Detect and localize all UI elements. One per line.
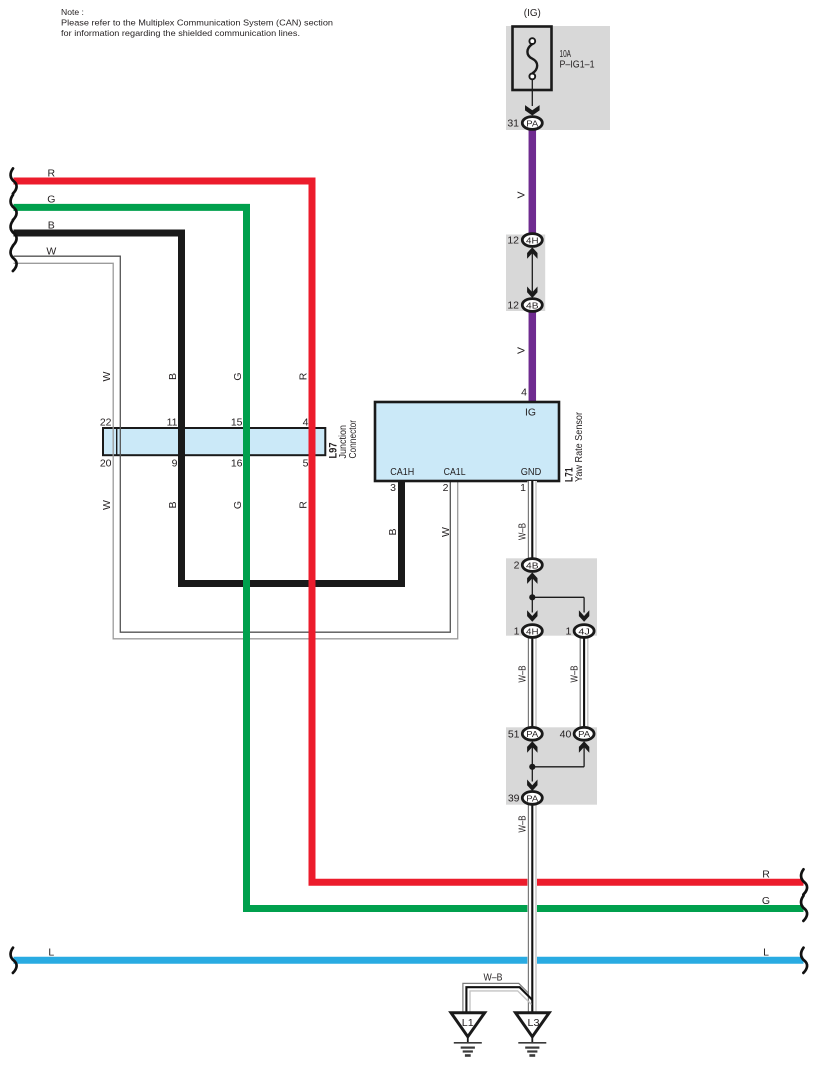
continuation symbol wire R left <box>11 168 17 193</box>
W-B wire 4J to 40PA <box>579 637 589 728</box>
svg-text:PA: PA <box>526 729 538 739</box>
svg-text:4H: 4H <box>526 235 539 245</box>
svg-text:G: G <box>47 194 55 206</box>
arrow up into 51 PA <box>527 741 537 753</box>
wire B (black) <box>14 233 402 584</box>
svg-text:IG: IG <box>525 407 536 419</box>
svg-text:L1: L1 <box>462 1018 474 1029</box>
svg-text:4J: 4J <box>578 626 590 636</box>
svg-text:W: W <box>46 245 56 257</box>
svg-text:39: 39 <box>508 793 520 805</box>
wire G (green) <box>14 207 804 908</box>
shaded relay block background (fuse area) <box>506 26 610 130</box>
connector oval 51 PA <box>522 727 542 740</box>
connector oval 12 4B <box>522 299 542 312</box>
svg-text:9: 9 <box>172 458 178 470</box>
svg-text:2: 2 <box>514 560 520 572</box>
junction dot <box>529 594 535 600</box>
W-B branch wye to ground L1 <box>463 983 532 1012</box>
continuation symbol wire W left <box>11 246 17 271</box>
continuation symbol wire G right <box>801 896 807 921</box>
continuation symbol wire G left <box>11 195 17 220</box>
arrow up into 4B <box>527 572 537 584</box>
W-B wire sensor GND pin1 to 4B <box>527 481 537 559</box>
wire fuse to 31 PA <box>531 79 533 106</box>
continuation squiggles right edge <box>801 869 807 973</box>
connector oval 1 4J <box>574 625 594 638</box>
arrow up into 4H <box>527 247 537 258</box>
wire 4B to 4H <box>531 578 533 613</box>
svg-text:W–B: W–B <box>484 971 503 983</box>
svg-text:20: 20 <box>100 458 112 470</box>
wire 51PA to 39PA <box>531 747 533 782</box>
arrow up into 40 PA <box>579 741 589 753</box>
wire V (violet) segment 4B to sensor <box>529 311 537 403</box>
continuation symbol wire L right <box>801 948 807 973</box>
jumper wire to 4J <box>532 596 584 598</box>
svg-text:11: 11 <box>167 417 178 429</box>
svg-text:B: B <box>167 373 179 380</box>
svg-text:R: R <box>48 167 56 179</box>
svg-text:L3: L3 <box>528 1018 540 1029</box>
shaded connector block background (4H/4B) <box>506 235 545 312</box>
svg-text:B: B <box>48 219 55 231</box>
arrow down into 4B <box>527 287 537 299</box>
svg-text:W–B: W–B <box>569 666 581 683</box>
note text <box>61 7 333 38</box>
svg-text:4H: 4H <box>526 626 539 636</box>
svg-text:W–B: W–B <box>517 816 529 833</box>
svg-text:4B: 4B <box>526 560 539 570</box>
svg-text:W: W <box>101 500 113 510</box>
svg-text:CA1H: CA1H <box>390 466 414 478</box>
svg-text:W–B: W–B <box>517 523 529 540</box>
svg-text:Please refer to the Multiplex: Please refer to the Multiplex Communicat… <box>61 18 333 28</box>
svg-text:4B: 4B <box>526 300 539 310</box>
svg-text:16: 16 <box>231 458 243 470</box>
svg-text:G: G <box>232 501 244 509</box>
arrow down into 39 PA <box>527 780 537 792</box>
svg-text:3: 3 <box>390 482 396 494</box>
fuse element <box>527 44 537 73</box>
fuse body <box>513 27 552 91</box>
svg-text:40: 40 <box>560 728 572 740</box>
svg-text:1: 1 <box>520 482 526 494</box>
svg-text:W: W <box>440 527 452 537</box>
svg-text:2: 2 <box>443 482 449 494</box>
svg-text:12: 12 <box>507 300 519 312</box>
svg-text:G: G <box>232 372 244 380</box>
svg-text:CA1L: CA1L <box>444 466 466 478</box>
svg-text:Connector: Connector <box>347 420 359 459</box>
connector oval 1 4H <box>522 625 542 638</box>
shaded connector block background (4B/4H/4J) <box>506 558 597 635</box>
svg-text:V: V <box>516 191 528 198</box>
wire W shield line B (light) <box>14 263 458 639</box>
svg-text:V: V <box>516 347 528 354</box>
svg-text:L: L <box>763 946 769 958</box>
svg-text:PA: PA <box>578 729 590 739</box>
svg-text:L: L <box>48 947 54 959</box>
wire W shield line A (dark) <box>14 256 451 632</box>
ground L1 <box>451 1013 485 1056</box>
W-B wire 4H to 51PA <box>527 637 537 728</box>
arrow into 31 PA <box>525 105 540 115</box>
svg-text:4: 4 <box>521 387 527 399</box>
jumper wire from 40 PA <box>532 766 584 768</box>
wire L (light blue) <box>14 957 804 964</box>
arrow down into 4J <box>579 610 589 622</box>
svg-text:PA: PA <box>526 118 538 128</box>
wire R (red) <box>14 181 804 882</box>
arrows and split 4B to 4H / 4J <box>527 572 589 621</box>
svg-text:1: 1 <box>565 626 571 638</box>
wire V (violet) segment fuse to 4H <box>529 129 537 234</box>
svg-text:5: 5 <box>303 458 309 470</box>
ground L3 <box>516 1013 550 1056</box>
connector oval 39 PA <box>522 792 542 805</box>
svg-text:P–IG1–1: P–IG1–1 <box>560 58 595 70</box>
svg-text:G: G <box>762 895 770 907</box>
svg-text:4: 4 <box>303 417 309 429</box>
connector oval 12 4H with arrows to 12 4B <box>522 234 542 247</box>
svg-text:22: 22 <box>100 417 112 429</box>
svg-text:PA: PA <box>526 793 538 803</box>
arrows and merge 51PA/40PA to 39PA <box>527 741 589 791</box>
continuation symbol wire B left <box>11 220 17 245</box>
fuse P-IG1-1 <box>513 27 552 107</box>
svg-text:W: W <box>101 371 113 381</box>
wire 4H to 4B <box>531 252 533 292</box>
svg-text:Note :: Note : <box>61 7 84 17</box>
svg-text:15: 15 <box>231 417 243 429</box>
connector oval 2 4B (below sensor) <box>522 559 542 572</box>
continuation symbol wire R right <box>801 869 807 894</box>
svg-text:R: R <box>298 501 310 509</box>
junction connector L97 body <box>103 428 325 455</box>
svg-text:GND: GND <box>521 466 542 478</box>
svg-text:(IG): (IG) <box>524 7 541 19</box>
svg-text:for information regarding the: for information regarding the shielded c… <box>61 28 300 38</box>
arrow down into 4H <box>527 610 537 622</box>
svg-text:R: R <box>762 869 770 881</box>
yaw rate sensor box L71 <box>375 402 559 481</box>
svg-text:1: 1 <box>514 626 520 638</box>
connector oval 31 PA <box>522 117 542 130</box>
continuation symbol wire L left <box>11 948 17 973</box>
svg-text:Yaw Rate Sensor: Yaw Rate Sensor <box>573 412 585 482</box>
svg-text:B: B <box>387 528 399 535</box>
svg-text:51: 51 <box>508 728 520 740</box>
svg-text:W–B: W–B <box>517 666 529 683</box>
svg-text:12: 12 <box>507 235 519 247</box>
shaded connector block background (PA row) <box>506 727 597 804</box>
connector oval 40 PA <box>574 727 594 740</box>
svg-text:B: B <box>167 501 179 508</box>
W-B wire 39PA to ground L3 <box>527 804 537 1012</box>
svg-text:31: 31 <box>507 118 519 130</box>
junction dot <box>529 764 535 770</box>
svg-text:R: R <box>298 372 310 380</box>
continuation squiggles left edge <box>11 168 17 973</box>
